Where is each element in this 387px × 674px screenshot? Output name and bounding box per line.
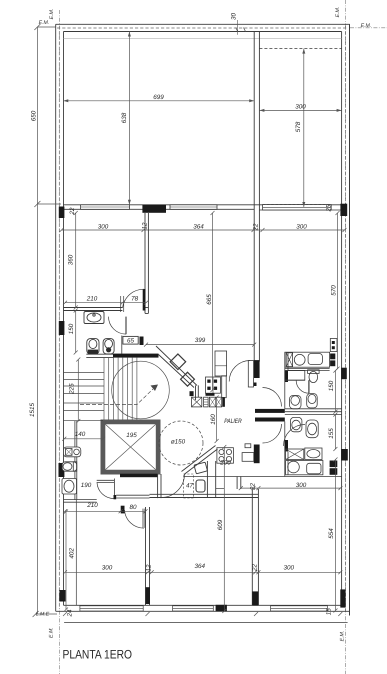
- svg-text:E.M.: E.M.: [335, 7, 341, 18]
- wall vertical x284.8-288 upper: [285, 352, 288, 409]
- svg-text:1515: 1515: [29, 403, 36, 418]
- svg-text:300: 300: [296, 224, 307, 231]
- kitchen counter bottom unit: [286, 461, 323, 475]
- wire sidewalk line bottom: [64, 621, 348, 623]
- wall black corridor band: [120, 474, 158, 478]
- wall partition x252.3-258.4: [252, 489, 258, 605]
- kitchen X box: [192, 397, 202, 407]
- svg-text:E.M.: E.M.: [39, 20, 50, 26]
- door D7 arc: [97, 483, 114, 499]
- wall bottom-left-2 top y494.3-497.5: [150, 494, 259, 497]
- fixture basin rect bottom unit: [305, 448, 322, 460]
- svg-text:25: 25: [326, 204, 333, 213]
- wire stair landing line: [64, 420, 104, 422]
- svg-text:47: 47: [186, 483, 194, 490]
- svg-text:E.M.: E.M.: [361, 23, 372, 29]
- svg-text:150: 150: [68, 323, 75, 334]
- kitchen counter top unit: [285, 352, 330, 367]
- wall black segment palier wall lower: [285, 440, 288, 451]
- duct diamond 1: [170, 354, 186, 370]
- fixture toilet lower bath: [64, 447, 81, 457]
- window bottom W4: [80, 606, 143, 611]
- wall jamb left of door: [121, 296, 124, 312]
- svg-text:L.M.E: L.M.E: [36, 612, 50, 618]
- wire property axis EM left (dash-dot): [58, 10, 60, 674]
- wall black bar right of 65: [140, 337, 144, 346]
- wire short line: [216, 488, 225, 490]
- svg-text:364: 364: [194, 563, 205, 570]
- dim ticks bottom wall row y614: [63, 612, 342, 616]
- svg-text:22: 22: [252, 564, 259, 573]
- door D1 arc: [123, 289, 144, 308]
- svg-text:12: 12: [146, 564, 153, 572]
- svg-text:650: 650: [31, 110, 38, 121]
- dim ticks 30 at top wall: [237, 20, 239, 35]
- svg-text:PALIER: PALIER: [224, 418, 242, 425]
- wall bath right x74.9-76.8: [75, 421, 77, 500]
- svg-text:360: 360: [68, 254, 75, 265]
- dim row bottom y572.3: [65, 571, 340, 573]
- stair walk line with arrow: [80, 389, 153, 405]
- svg-text:699: 699: [153, 94, 164, 101]
- wall corridor top line: [184, 476, 342, 478]
- wall exterior bottom outer: [56, 610, 350, 612]
- wire wall center dashes left: [58, 26, 60, 609]
- svg-text:554: 554: [328, 528, 335, 539]
- svg-text:78: 78: [131, 296, 139, 303]
- door D8 arc: [125, 510, 144, 528]
- dim 210/78 line y302.7: [65, 302, 146, 304]
- wall hall right piece: [116, 495, 149, 498]
- column black left wall mid: [59, 321, 65, 335]
- wall exterior top outer: [56, 23, 350, 25]
- kitchen counter rounded rect top unit: [308, 354, 322, 365]
- kitchen counter tall rect: [215, 351, 227, 376]
- wall under counter top unit: [285, 369, 330, 371]
- dim line 650/1515 vertical left: [36, 27, 38, 614]
- column black top-left: [59, 207, 65, 219]
- wall neck band bottom: [255, 418, 285, 422]
- stair treads left flight: [64, 373, 105, 411]
- wall partition upper (between 699 and 578 rooms): [254, 32, 259, 362]
- svg-text:364: 364: [193, 224, 204, 231]
- kitchen sink circle top unit: [294, 354, 305, 365]
- duct black square: [190, 391, 194, 396]
- dim 210/80 y511.3: [65, 510, 146, 512]
- svg-text:638: 638: [121, 112, 128, 123]
- door D2 palier top-left arc: [229, 361, 250, 382]
- svg-text:210: 210: [86, 296, 98, 303]
- window sill W3 in band right: [263, 205, 332, 210]
- wall hall left piece: [64, 500, 97, 503]
- column black bottom-left wall: [60, 590, 66, 602]
- svg-text:80: 80: [129, 504, 137, 511]
- wall duct lines: [207, 461, 215, 497]
- dim line 578 vertical top-right room: [303, 49, 305, 207]
- dim 155 vertical right unit: [334, 415, 336, 449]
- wall vertical stub below diagonal: [196, 385, 199, 400]
- wall vertical x284.8-288 lower: [285, 422, 288, 477]
- dim 402 vertical x66: [65, 512, 67, 610]
- fixture toilet top unit: [308, 370, 320, 374]
- wall black jamb D7: [114, 495, 117, 499]
- svg-text:300: 300: [98, 224, 109, 231]
- wall black segment on partition: [146, 587, 151, 604]
- svg-text:24: 24: [67, 609, 74, 618]
- kitchen stove X top unit: [286, 353, 292, 367]
- wire dashed closet line top-right room: [259, 48, 341, 50]
- fixture small box on lower diagonal: [194, 462, 207, 474]
- wall exterior left inner: [63, 32, 65, 606]
- svg-text:PLANTA 1ERO: PLANTA 1ERO: [63, 648, 133, 662]
- svg-text:399: 399: [195, 337, 206, 344]
- wall horizontal bath top y307.5-310.5: [64, 308, 123, 311]
- kitchen narrow tall rect: [222, 376, 227, 398]
- wall black segment bottom wall: [216, 605, 227, 612]
- wall exterior top inner: [64, 31, 342, 33]
- door D2 leaf: [248, 361, 253, 388]
- svg-text:300: 300: [296, 482, 307, 489]
- kitchen divided sink box: [209, 397, 221, 407]
- door D7 leaf horizontal: [97, 480, 114, 482]
- kitchen rounded rect bottom unit: [307, 463, 321, 474]
- svg-text:65: 65: [127, 338, 135, 345]
- fixture rounded box: [196, 480, 205, 492]
- svg-text:30: 30: [231, 13, 238, 21]
- stair helix circle: [112, 361, 170, 419]
- fixture cabinet 65: [123, 336, 138, 344]
- kitchen fridge box: [242, 453, 254, 462]
- wall black band above stairs: [113, 354, 159, 358]
- svg-text:22: 22: [253, 223, 260, 232]
- wall exterior left outer: [55, 24, 57, 611]
- wall neck band top: [255, 409, 285, 413]
- svg-text:E.M.: E.M.: [49, 627, 55, 638]
- svg-text:665: 665: [206, 294, 213, 305]
- wall exterior right inner: [341, 32, 343, 606]
- duct box with dots right wall: [330, 339, 337, 352]
- svg-text:155: 155: [328, 428, 335, 439]
- dim 399 horizontal: [146, 344, 254, 346]
- svg-text:210: 210: [86, 502, 98, 509]
- door D8 leaf 80: [143, 509, 145, 528]
- kitchen stove 4 squares: [206, 377, 221, 393]
- svg-text:225: 225: [68, 383, 75, 395]
- kitchen black blocks top unit: [330, 354, 335, 360]
- column black top-right: [340, 204, 347, 216]
- wire faint beam line below top wall: [64, 37, 342, 39]
- fixture washbasin upper bath: [84, 312, 104, 324]
- column black right wall upper: [341, 368, 347, 380]
- fixture washbasin A top unit: [290, 396, 302, 409]
- wall stub y380.2: [285, 379, 305, 381]
- dim 150 vertical: [75, 311, 77, 353]
- door D6 arc bottom unit: [284, 425, 306, 447]
- svg-text:190: 190: [81, 482, 92, 489]
- wall black segment on partition 2: [252, 591, 258, 605]
- kitchen black bar right: [222, 397, 225, 407]
- door D9 leaf (double): [158, 474, 161, 498]
- door D1b leaf: [125, 317, 127, 335]
- column black bottom-right wall: [340, 589, 345, 607]
- door D9 arc: [161, 474, 185, 498]
- wall black segment lower end of upper partition: [254, 360, 260, 378]
- dim line 638 vertical: [128, 32, 130, 205]
- dim 609 vertical: [223, 447, 225, 611]
- wall black segment palier wall upper: [285, 371, 288, 382]
- dim row y=230 under band: [62, 229, 345, 231]
- wire property axis EM top horizontal: [350, 27, 387, 29]
- svg-text:609: 609: [217, 519, 224, 530]
- elevator X diagonals: [105, 424, 156, 469]
- wall black segment in band: [142, 205, 166, 213]
- dim 140 y438.8: [64, 438, 103, 440]
- dim 160 vertical: [216, 398, 218, 442]
- svg-text:E.M.: E.M.: [49, 9, 55, 20]
- wall jamb piece right of door: [145, 307, 148, 309]
- wire wall center dashes top: [57, 27, 348, 29]
- dim 554 vertical: [335, 460, 337, 611]
- wall vertical x145-148.4: [145, 213, 148, 313]
- kitchen black L wall: [254, 445, 260, 464]
- door D5 arc top unit: [296, 380, 309, 393]
- kitchen striped box: [204, 397, 209, 407]
- kitchen black blocks bottom unit: [330, 461, 338, 468]
- svg-text:ø150: ø150: [171, 439, 186, 446]
- wall black stub below D2 leaf: [254, 383, 257, 387]
- svg-text:300: 300: [295, 104, 306, 111]
- kitchen black bar under stove: [206, 393, 215, 396]
- svg-text:22: 22: [249, 483, 256, 492]
- kitchen small box: [245, 444, 251, 448]
- duct diamond 2: [181, 372, 195, 386]
- dim 150 vertical right unit: [334, 371, 336, 412]
- door D1 leaf 78 (dark bar): [143, 289, 146, 311]
- svg-text:300: 300: [284, 565, 295, 572]
- fixture bidet upper bath: [87, 339, 99, 354]
- window sill W1 in band: [81, 205, 130, 210]
- fixture washbasin lower bath: [62, 479, 77, 495]
- column black right wall mid: [341, 449, 348, 461]
- door D4 neck bottom arc: [263, 424, 282, 443]
- svg-text:150: 150: [328, 380, 335, 391]
- kitchen sink circle bottom unit: [288, 461, 300, 473]
- wall stub x237-241: [237, 477, 241, 490]
- dim 225 vertical: [77, 360, 79, 422]
- stair risers vertical: [104, 357, 137, 419]
- wall exterior right outer: [349, 24, 351, 615]
- svg-text:195: 195: [126, 432, 137, 439]
- wire closet line bottom-left room: [75, 500, 77, 605]
- column black on left wall: [59, 463, 65, 477]
- dim line 300 top-right room: [259, 109, 341, 111]
- wall between units y408.8-414.6: [285, 409, 342, 415]
- svg-text:300: 300: [102, 565, 113, 572]
- svg-text:15: 15: [325, 608, 332, 616]
- diagonal wall lower (palier to corridor): [182, 446, 218, 475]
- fixture toilet upper bath: [103, 339, 114, 354]
- svg-text:E.M.: E.M.: [340, 631, 346, 642]
- diagonal wall upper (stair to palier): [156, 346, 197, 388]
- fixture washbasin B top unit: [307, 394, 318, 408]
- wire property axis EM right (dash-dot): [345, 0, 347, 674]
- dim 300 corridor y488.1: [241, 487, 341, 489]
- dim 360 vertical: [75, 213, 77, 308]
- elevator shaft walls: [101, 420, 161, 475]
- wall black jamb D8: [121, 506, 125, 514]
- svg-text:160: 160: [210, 414, 217, 425]
- svg-text:140: 140: [75, 431, 86, 438]
- door D7 hinge line: [114, 479, 116, 496]
- circle turning radius dashed: [159, 421, 203, 465]
- fixture toilet bottom unit: [306, 420, 318, 438]
- fixture bidet lower bath: [62, 462, 76, 471]
- svg-text:402: 402: [69, 548, 76, 559]
- window sill W2 in band: [170, 205, 217, 210]
- fixture shelf top unit: [285, 371, 305, 381]
- dim 570 vertical right: [337, 213, 339, 369]
- window bottom W5: [173, 606, 214, 611]
- window bottom W6: [271, 606, 328, 611]
- wire wall center dashes right: [345, 26, 347, 613]
- kitchen stove 4 burners: [217, 448, 234, 464]
- dim 665 vertical: [212, 213, 214, 390]
- dim line 699 horizontal: [63, 100, 254, 102]
- door D3 neck top arc: [263, 388, 282, 407]
- wall stub left of black band: [86, 354, 113, 357]
- wall stub line left of 65: [121, 336, 123, 354]
- fixture washbasin A bottom unit: [290, 417, 302, 431]
- duct dashed rect 47: [184, 474, 194, 498]
- wall partition x145.5-149.5: [146, 507, 150, 605]
- fixture crossed cabinet bottom unit: [286, 449, 304, 460]
- svg-text:200: 200: [219, 460, 231, 467]
- svg-text:578: 578: [295, 121, 302, 132]
- door D1b arc: [109, 317, 126, 335]
- wall exterior bottom inner: [64, 604, 342, 606]
- svg-text:570: 570: [331, 285, 338, 296]
- wall band line bottom: [64, 208, 342, 211]
- wall band line top: [64, 204, 342, 206]
